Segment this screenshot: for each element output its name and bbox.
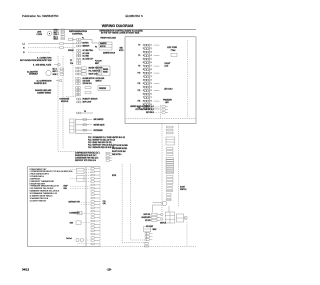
svg-text:BLK 1: BLK 1	[53, 68, 57, 70]
svg-text:P2: P2	[138, 45, 140, 47]
svg-text:6: 6	[151, 62, 152, 64]
svg-text:(J4): (J4)	[103, 203, 106, 205]
svg-text:INVERTER BOX: INVERTER BOX	[34, 83, 47, 85]
svg-text:2: 2	[151, 48, 152, 50]
svg-text:LED 4012: LED 4012	[164, 89, 172, 91]
svg-text:NOTE: NOTE	[112, 175, 116, 177]
svg-text:WHT 2: WHT 2	[53, 71, 58, 73]
svg-text:WIRING DIAGRAM: WIRING DIAGRAM	[102, 24, 134, 28]
svg-text:04/13: 04/13	[22, 268, 29, 272]
svg-text:P15: P15	[138, 90, 141, 92]
svg-text:ASSEMBLY: ASSEMBLY	[29, 73, 39, 76]
svg-text:CONTROL: CONTROL	[72, 33, 83, 35]
svg-text:MODULE: MODULE	[61, 101, 69, 103]
svg-text:NOTE: NOTE	[119, 50, 123, 52]
svg-text:7: 7	[151, 66, 152, 68]
svg-text:ORG 4: ORG 4	[54, 34, 59, 36]
svg-text:AC LINE: AC LINE	[83, 52, 90, 55]
svg-text:WHT 3: WHT 3	[54, 32, 59, 34]
svg-text:LED: LED	[165, 102, 169, 104]
svg-text:WHT SHOWN FROM WIRE ENTRY SID: WHT SHOWN FROM WIRE ENTRY SIDE	[20, 60, 52, 62]
svg-text:SEE: SEE	[120, 48, 123, 50]
svg-text:ICE SW: ICE SW	[145, 220, 151, 222]
svg-text:P14 CON: P14 CON	[95, 61, 101, 63]
svg-text:FILL TUBE HTR: FILL TUBE HTR	[89, 71, 101, 73]
svg-text:SWITCH: SWITCH	[160, 222, 166, 224]
svg-text:3: 3	[151, 52, 152, 54]
svg-text:IN THE TOP HINGE COVER AT RIGH: IN THE TOP HINGE COVER AT RIGHT SIDE	[101, 32, 140, 35]
svg-text:DISP SOL: DISP SOL	[144, 214, 151, 216]
svg-text:5: 5	[151, 90, 152, 92]
svg-text:LED PWR: LED PWR	[167, 47, 178, 49]
svg-text:DEFROST HTR: DEFROST HTR	[69, 202, 81, 204]
svg-text:FREEZER: FREEZER	[99, 88, 107, 90]
svg-text:CONDENSER: CONDENSER	[69, 213, 80, 215]
svg-text:MOTOR: MOTOR	[100, 46, 106, 48]
svg-text:P11 5 SENSOR RED-18 WHT-18: P11 5 SENSOR RED-18 WHT-18	[88, 147, 114, 149]
svg-text:7784: 7784	[171, 49, 177, 52]
svg-text:4: 4	[151, 55, 152, 57]
svg-text:P1: P1	[82, 38, 84, 40]
svg-text:1: 1	[151, 45, 152, 47]
svg-text:EI23BC56J S: EI23BC56J S	[126, 14, 143, 18]
svg-text:AC NEUTRAL: AC NEUTRAL	[83, 49, 94, 52]
svg-text:RIGHT DOOR SIM: RIGHT DOOR SIM	[112, 151, 126, 153]
svg-text:6: 6	[151, 94, 152, 96]
svg-text:CRUSH SOL: CRUSH SOL	[83, 83, 92, 85]
svg-text:3: 3	[151, 83, 152, 85]
svg-text:RETURN 3: RETURN 3	[146, 112, 154, 114]
svg-text:P5: P5	[138, 55, 140, 57]
svg-text:SPARE: SPARE	[68, 49, 74, 52]
svg-text:SENSOR: SENSOR	[83, 46, 91, 48]
svg-text:DISPENSER: DISPENSER	[94, 130, 104, 132]
svg-text:DEFROST HTR ORG-18 4: DEFROST HTR ORG-18 4	[75, 160, 96, 162]
svg-text:P13: P13	[138, 83, 141, 85]
svg-text:HUMIDITY SENSOR: HUMIDITY SENSOR	[83, 99, 99, 101]
svg-text:B - SEE SERIAL PLATE: B - SEE SERIAL PLATE	[33, 63, 52, 66]
svg-text:8: 8	[151, 69, 152, 71]
svg-text:GRN 3: GRN 3	[53, 74, 58, 76]
svg-text:P2: P2	[70, 60, 72, 62]
svg-text:13 LIGHT SWITCH: 13 LIGHT SWITCH	[30, 200, 47, 202]
svg-text:P18: P18	[138, 101, 141, 103]
svg-text:DISPENSER MODEL: DISPENSER MODEL	[112, 148, 127, 150]
svg-text:BLK 1: BLK 1	[54, 36, 58, 38]
svg-text:9: 9	[151, 104, 152, 106]
svg-text:P9: P9	[84, 111, 86, 113]
svg-text:-18-: -18-	[107, 268, 112, 272]
svg-text:P11: P11	[103, 201, 106, 203]
svg-text:9: 9	[151, 73, 152, 75]
svg-text:FRESH FOOD ZONE: FRESH FOOD ZONE	[101, 38, 116, 40]
svg-text:CORD: CORD	[37, 34, 43, 36]
svg-text:SWITCH: SWITCH	[96, 81, 102, 83]
svg-text:4: 4	[151, 87, 152, 89]
svg-text:5: 5	[151, 59, 152, 61]
svg-text:P8: P8	[138, 66, 140, 68]
svg-text:AC LINE OUT: AC LINE OUT	[83, 57, 94, 60]
svg-text:Publication No. 5995636750: Publication No. 5995636750	[22, 14, 59, 18]
svg-text:SWITCH: SWITCH	[180, 189, 187, 191]
svg-text:8: 8	[151, 101, 152, 103]
svg-text:On Dnd: On Dnd	[66, 238, 72, 240]
svg-text:1: 1	[151, 76, 152, 78]
svg-text:GRN 5: GRN 5	[54, 30, 59, 32]
svg-text:CABINET WIRING: CABINET WIRING	[37, 91, 52, 94]
svg-text:7: 7	[151, 97, 152, 99]
svg-text:BRKT: BRKT	[95, 63, 99, 65]
svg-text:P14: P14	[70, 63, 73, 65]
svg-text:DISP LIGHT: DISP LIGHT	[83, 102, 92, 104]
svg-text:LEFT DOOR SHOWN: LEFT DOOR SHOWN	[112, 145, 128, 147]
svg-text:RED 2: RED 2	[54, 39, 59, 41]
svg-text:P10: P10	[138, 73, 141, 75]
svg-text:LED: LED	[165, 66, 169, 68]
svg-text:2: 2	[151, 80, 152, 82]
svg-text:P4: P4	[95, 47, 97, 49]
